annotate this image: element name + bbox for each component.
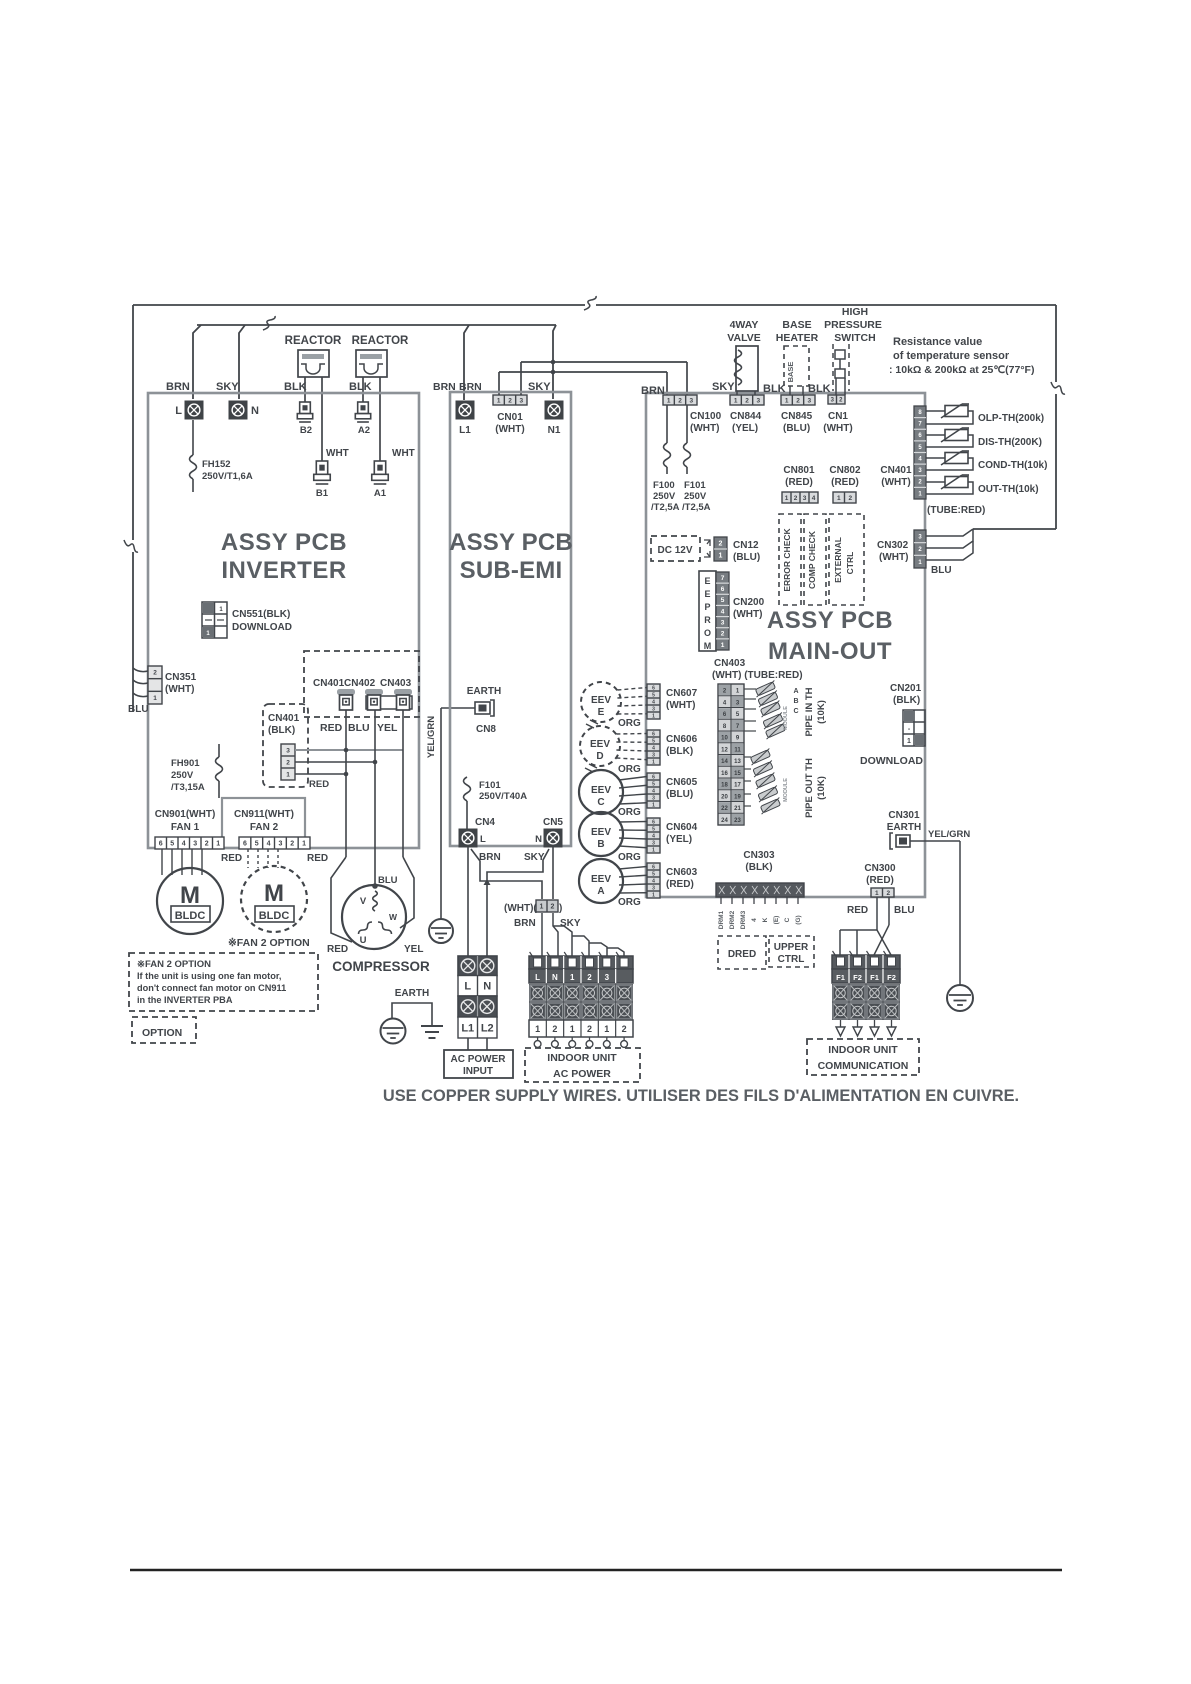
connector CN911: [239, 837, 310, 849]
svg-text:L1: L1: [459, 425, 471, 436]
svg-text:1: 1: [302, 841, 306, 848]
svg-text:BRN: BRN: [479, 852, 501, 863]
dashed box UPPER CTRL: [769, 936, 814, 967]
svg-text:CN01: CN01: [497, 412, 523, 423]
svg-text:6: 6: [159, 841, 163, 848]
connector CN401 BLK pins: [281, 744, 295, 780]
svg-text:1: 1: [875, 890, 879, 897]
svg-text:MODULE: MODULE: [783, 706, 789, 730]
svg-text:M: M: [704, 641, 712, 651]
svg-text:(RED): (RED): [666, 879, 694, 890]
terminal CN4: [459, 817, 496, 848]
svg-text:2: 2: [286, 759, 290, 766]
svg-text:CN402: CN402: [344, 678, 376, 689]
svg-text:YEL/GRN: YEL/GRN: [426, 716, 437, 758]
svg-text:1: 1: [652, 802, 655, 808]
svg-text:24: 24: [721, 818, 728, 824]
terminal block indoor AC numbers: [529, 1020, 633, 1037]
svg-text:BRN: BRN: [641, 385, 665, 397]
thermistor DIS-TH(200K): [941, 428, 1042, 448]
svg-text:(WHT): (WHT): [690, 423, 719, 434]
svg-text:2: 2: [796, 397, 800, 404]
label BLK 2: [349, 381, 372, 393]
svg-text:4: 4: [182, 841, 186, 848]
EEV A: [579, 859, 623, 903]
svg-text:(WHT): (WHT): [495, 424, 524, 435]
wire break bus: [263, 316, 275, 330]
svg-text:A2: A2: [358, 425, 370, 436]
PCB box ASSY PCB SUB-EMI: [450, 392, 571, 846]
connector CN403: [718, 684, 744, 825]
svg-text:250V/T1,6A: 250V/T1,6A: [202, 471, 253, 482]
svg-text:(RED): (RED): [866, 875, 894, 886]
caption use copper wires: [383, 1087, 1019, 1105]
svg-text:3: 3: [721, 619, 725, 626]
svg-text:ORG: ORG: [618, 852, 641, 863]
svg-text:BLDC: BLDC: [175, 910, 206, 922]
label BRN main: [641, 385, 665, 397]
pipe out thermistors: [744, 748, 789, 814]
svg-text:Resistance value: Resistance value: [893, 336, 982, 348]
svg-text:K: K: [762, 917, 769, 922]
svg-text:INPUT: INPUT: [463, 1066, 493, 1077]
svg-text:P: P: [704, 602, 710, 612]
svg-text:CN351: CN351: [165, 672, 197, 683]
svg-text:DOWNLOAD: DOWNLOAD: [860, 755, 923, 767]
title SUB-EMI: [449, 529, 573, 584]
label BRN low: [514, 918, 536, 929]
svg-text:(BLU): (BLU): [666, 789, 693, 800]
box CN911 FAN2: [222, 798, 305, 848]
svg-text:N: N: [535, 834, 542, 845]
svg-text:11: 11: [734, 747, 741, 753]
label BRN cn4: [479, 852, 501, 863]
dashed box DRED: [718, 936, 766, 969]
svg-text:/T2,5A: /T2,5A: [651, 502, 680, 513]
wire CN300 RED: [840, 897, 891, 955]
svg-text:2: 2: [721, 631, 725, 638]
svg-text:2: 2: [745, 397, 749, 404]
svg-text:BRN: BRN: [514, 918, 536, 929]
svg-text:in the INVERTER PBA: in the INVERTER PBA: [137, 995, 233, 1005]
svg-text:INDOOR UNIT: INDOOR UNIT: [547, 1052, 617, 1064]
svg-text:DIS-TH(200K): DIS-TH(200K): [978, 437, 1042, 448]
svg-text:2: 2: [552, 1024, 557, 1034]
svg-text:E: E: [704, 576, 710, 586]
svg-text:D: D: [596, 751, 603, 762]
svg-text:PIPE IN TH: PIPE IN TH: [804, 687, 815, 736]
svg-text:COMMUNICATION: COMMUNICATION: [818, 1060, 909, 1072]
labels CN303 signals: [718, 910, 802, 929]
label FAN2: [234, 809, 294, 833]
svg-text:BRN: BRN: [459, 381, 482, 393]
svg-text:EARTH: EARTH: [887, 822, 921, 833]
arrows communication: [836, 1020, 896, 1036]
svg-text:HEATER: HEATER: [776, 332, 819, 344]
svg-text:2: 2: [205, 841, 209, 848]
wire reactor2 to A2: [362, 377, 364, 402]
EEV D: [580, 726, 620, 766]
svg-text:(BLU): (BLU): [783, 423, 810, 434]
label RED compressor: [327, 944, 348, 955]
svg-text:※FAN 2 OPTION: ※FAN 2 OPTION: [137, 959, 211, 970]
svg-text:DOWNLOAD: DOWNLOAD: [232, 622, 292, 633]
svg-text:16: 16: [721, 771, 728, 777]
svg-text:BLK: BLK: [284, 381, 307, 393]
svg-text:HIGH: HIGH: [842, 306, 868, 318]
label ORG B: [618, 852, 641, 863]
svg-text:A: A: [597, 886, 604, 897]
wire L2 to box: [486, 1038, 488, 1050]
svg-text:2: 2: [719, 541, 723, 548]
label ORG E: [618, 718, 641, 729]
svg-text:EEV: EEV: [591, 695, 611, 706]
svg-text:1: 1: [153, 695, 157, 702]
svg-text:15: 15: [734, 771, 741, 777]
svg-text:1: 1: [540, 904, 544, 911]
svg-text:(WHT): (WHT): [733, 609, 762, 620]
label WHT B1: [326, 448, 349, 459]
svg-text:1: 1: [785, 495, 789, 502]
dashed box COMP CHECK: [804, 514, 826, 605]
wire outer frame top: [133, 304, 1056, 306]
terminal block indoor AC hooks: [534, 1037, 627, 1047]
svg-text:(WHT) (TUBE:RED): (WHT) (TUBE:RED): [712, 670, 803, 681]
svg-text:PRESSURE: PRESSURE: [824, 319, 882, 331]
svg-text:A: A: [793, 688, 798, 695]
svg-text:DRED: DRED: [728, 949, 756, 960]
terminal block communication pins: [832, 951, 900, 969]
svg-text:F2: F2: [853, 973, 862, 982]
svg-text:1: 1: [907, 738, 911, 745]
svg-text:/T3,15A: /T3,15A: [171, 782, 205, 793]
svg-text:1: 1: [785, 397, 789, 404]
wire break right: [1051, 382, 1065, 394]
terminal L: [175, 401, 203, 420]
wire CN5 branch to AC N: [484, 849, 550, 956]
svg-text:(RED): (RED): [785, 477, 813, 488]
svg-text:DC 12V: DC 12V: [657, 545, 692, 556]
svg-text:RED: RED: [327, 944, 348, 955]
wire thermistor 2: [926, 435, 973, 447]
svg-text:3: 3: [803, 495, 807, 502]
svg-text:CN606: CN606: [666, 734, 698, 745]
svg-text:BLU: BLU: [931, 565, 952, 576]
svg-text:ASSY PCB: ASSY PCB: [767, 607, 893, 634]
wire reactor2 to A1: [379, 377, 381, 461]
title INVERTER: [221, 529, 347, 584]
connector CN100: [663, 395, 722, 434]
svg-text:L: L: [464, 981, 471, 993]
label RED fan2: [307, 853, 328, 864]
svg-text:): ): [559, 903, 562, 914]
fuse F101 main: [682, 405, 711, 513]
svg-text:CN4: CN4: [475, 817, 495, 828]
svg-text:V: V: [360, 896, 367, 907]
svg-text:3: 3: [808, 397, 812, 404]
svg-text:E: E: [704, 589, 710, 599]
svg-text:CN301: CN301: [888, 810, 920, 821]
terminal N: [229, 401, 260, 420]
terminal block AC input L N: [458, 976, 497, 997]
wire CN5 to connector: [552, 847, 554, 899]
connector CN603: [647, 863, 698, 898]
connector CN302: [877, 530, 926, 568]
terminal L1: [456, 401, 475, 437]
svg-text:VALVE: VALVE: [727, 332, 760, 344]
label BLU cn302: [931, 565, 952, 576]
dashed box fan option plugs: [304, 651, 419, 717]
svg-text:CN801: CN801: [783, 465, 815, 476]
earth AC input: [381, 988, 444, 1044]
svg-text:DRM3: DRM3: [740, 910, 747, 929]
svg-text:SKY: SKY: [216, 381, 239, 393]
svg-text:CN401: CN401: [313, 678, 345, 689]
svg-text:USE COPPER SUPPLY WIRES. UTILI: USE COPPER SUPPLY WIRES. UTILISER DES FI…: [383, 1087, 1019, 1105]
svg-text:6: 6: [243, 841, 247, 848]
label PIPE OUT TH: [804, 758, 827, 818]
connector CN201: [903, 710, 925, 746]
svg-text:EARTH: EARTH: [395, 988, 429, 999]
wire CN300 BLU: [874, 897, 889, 955]
wire thermistor 4: [926, 482, 973, 494]
PCB box ASSY PCB MAIN-OUT: [646, 393, 925, 897]
svg-text:2: 2: [622, 1024, 627, 1034]
svg-text:ORG: ORG: [618, 807, 641, 818]
svg-text:COMPRESSOR: COMPRESSOR: [332, 959, 430, 974]
svg-text:EEV: EEV: [590, 739, 610, 750]
svg-text:19: 19: [734, 794, 741, 800]
svg-text:2: 2: [153, 670, 157, 677]
svg-text:B: B: [793, 698, 798, 705]
dashed box CN401 BLK: [263, 704, 308, 787]
wire CN401BLK pin3 row: [295, 748, 403, 753]
connector CN1: [823, 395, 852, 434]
wire CN4 branch to connector: [471, 849, 542, 899]
terminal block indoor AC pins: [529, 952, 633, 969]
svg-text:ERROR CHECK: ERROR CHECK: [782, 527, 792, 591]
svg-text:C: C: [597, 797, 604, 808]
label FAN1: [155, 809, 216, 833]
svg-text:RED: RED: [847, 905, 868, 916]
valve 4WAY label: [727, 319, 760, 344]
svg-text:250V: 250V: [171, 770, 194, 781]
svg-text:: 10kΩ & 200kΩ at 25℃(77°F): : 10kΩ & 200kΩ at 25℃(77°F): [889, 364, 1034, 376]
svg-text:BRN: BRN: [166, 381, 190, 393]
svg-text:N: N: [483, 981, 491, 993]
connector CN12: [714, 537, 760, 563]
wire CN401BLK pin1 row: [295, 772, 348, 777]
label BRN: [166, 381, 190, 393]
svg-text:1: 1: [570, 973, 575, 982]
connector B1: [314, 461, 331, 499]
box AC POWER INPUT: [444, 1050, 513, 1078]
wire YELGRN earth: [441, 708, 476, 919]
connector CN8 EARTH: [467, 686, 501, 735]
svg-text:CN100: CN100: [690, 411, 722, 422]
label RED pin1: [309, 779, 329, 790]
terminal N1: [545, 401, 564, 437]
label SKY low: [560, 918, 581, 929]
svg-text:13: 13: [734, 759, 741, 765]
label CN403: [712, 658, 803, 681]
svg-text:CN845: CN845: [781, 411, 813, 422]
svg-text:5: 5: [255, 841, 259, 848]
terminal block AC input L1 L2: [458, 1017, 497, 1038]
connector CN845: [781, 395, 815, 434]
svg-text:CN802: CN802: [829, 465, 861, 476]
svg-text:CN901(WHT): CN901(WHT): [155, 809, 216, 820]
connector plug CN401: [337, 689, 355, 710]
svg-text:BRN: BRN: [433, 381, 456, 393]
svg-text:U: U: [360, 935, 367, 946]
svg-text:SKY: SKY: [712, 381, 735, 393]
svg-text:BLU: BLU: [128, 704, 149, 715]
thermistor OLP-TH(200k): [941, 404, 1044, 424]
svg-text:CN605: CN605: [666, 777, 698, 788]
wire EEV B leads: [619, 822, 647, 848]
svg-text:CN12: CN12: [733, 540, 759, 551]
fuse FH901: [171, 744, 223, 798]
svg-text:2: 2: [587, 973, 592, 982]
label YEL compressor: [404, 944, 423, 955]
label CN303: [743, 850, 775, 873]
svg-text:BLK: BLK: [808, 383, 831, 395]
svg-text:2: 2: [290, 841, 294, 848]
svg-text:SUB-EMI: SUB-EMI: [460, 557, 563, 584]
svg-text:CN1: CN1: [828, 411, 848, 422]
wire EEV E leads: [617, 688, 647, 715]
svg-text:1: 1: [570, 1024, 575, 1034]
wire CN303 ticks: [721, 897, 798, 904]
svg-text:CN401: CN401: [268, 713, 300, 724]
svg-text:BLU: BLU: [348, 722, 370, 734]
connector CN301 EARTH: [887, 810, 921, 849]
bottom rule: [130, 1569, 1062, 1571]
svg-text:3: 3: [286, 747, 290, 754]
connector CN607: [647, 684, 698, 719]
svg-text:FAN 1: FAN 1: [171, 822, 200, 833]
svg-text:CN303: CN303: [743, 850, 775, 861]
connector CN606: [647, 730, 698, 765]
svg-text:6: 6: [721, 586, 725, 593]
connector WHT 1 2: [504, 900, 562, 914]
svg-text:3: 3: [605, 973, 610, 982]
reactor 2 label: [352, 335, 409, 347]
svg-text:2: 2: [678, 397, 682, 404]
connector CN300: [864, 863, 896, 897]
svg-text:F100: F100: [653, 480, 675, 491]
svg-text:1: 1: [535, 1024, 540, 1034]
svg-text:(BLK): (BLK): [745, 862, 772, 873]
note resistance value: [889, 336, 1034, 376]
svg-text:MODULE: MODULE: [783, 778, 789, 802]
svg-text:BLU: BLU: [894, 905, 915, 916]
svg-text:EEV: EEV: [591, 874, 611, 885]
svg-text:INDOOR UNIT: INDOOR UNIT: [828, 1044, 898, 1056]
svg-text:3: 3: [690, 397, 694, 404]
svg-text:O: O: [704, 628, 711, 638]
svg-text:BLK: BLK: [763, 383, 786, 395]
svg-text:F1: F1: [870, 973, 879, 982]
svg-text:SWITCH: SWITCH: [834, 332, 875, 344]
reactor 1: [298, 350, 329, 377]
wire fan2 motor leads: [248, 849, 278, 868]
label YELGRN vertical: [426, 716, 437, 758]
svg-text:UPPER: UPPER: [774, 942, 809, 953]
svg-text:F101: F101: [479, 780, 501, 791]
switch HIGH PRESSURE: [833, 344, 849, 395]
svg-text:(WHT): (WHT): [879, 552, 908, 563]
svg-text:C: C: [784, 917, 791, 922]
wire thermistor 3: [926, 458, 973, 470]
svg-text:BLDC: BLDC: [259, 910, 290, 922]
svg-text:21: 21: [734, 806, 741, 812]
svg-text:FH901: FH901: [171, 758, 200, 769]
svg-text:DRM1: DRM1: [718, 910, 725, 929]
svg-text:WHT: WHT: [326, 448, 349, 459]
svg-text:BASE: BASE: [782, 319, 811, 331]
svg-text:(G): (G): [795, 915, 802, 924]
svg-text:ASSY PCB: ASSY PCB: [449, 529, 573, 556]
svg-text:1: 1: [652, 713, 655, 719]
svg-text:DRM2: DRM2: [729, 910, 736, 929]
svg-text:7: 7: [721, 575, 725, 582]
terminal block AC input screws bottom: [458, 996, 497, 1017]
svg-text:1: 1: [652, 759, 655, 765]
svg-text:(BLK): (BLK): [666, 746, 693, 757]
svg-text:(E): (E): [773, 916, 780, 925]
wire CN301 to earth: [910, 841, 960, 985]
connector A1: [372, 461, 389, 499]
arrows CN12: [704, 540, 710, 557]
svg-text:N: N: [251, 405, 259, 417]
wire CN401BLK pin2 row: [295, 760, 377, 765]
svg-text:2: 2: [794, 495, 798, 502]
wire SKY feed to CN100: [521, 362, 687, 395]
svg-text:14: 14: [721, 759, 728, 765]
svg-text:4: 4: [812, 495, 816, 502]
connector CN844: [730, 395, 764, 434]
connector A2: [355, 402, 370, 436]
svg-text:EEV: EEV: [591, 785, 611, 796]
wire break top: [584, 296, 596, 310]
svg-text:4: 4: [267, 841, 271, 848]
svg-text:W: W: [389, 912, 398, 922]
svg-text:PIPE OUT TH: PIPE OUT TH: [804, 758, 815, 818]
svg-text:M: M: [180, 882, 200, 909]
connector CN801: [782, 465, 818, 503]
svg-text:CN8: CN8: [476, 724, 496, 735]
connector plug CN402: [365, 689, 383, 710]
svg-text:(WHT)(: (WHT)(: [504, 903, 537, 914]
label BLU compressor: [378, 875, 398, 886]
svg-text:1: 1: [837, 495, 841, 502]
label BLK: [284, 381, 307, 393]
svg-text:BLK: BLK: [349, 381, 372, 393]
label CN200: [733, 597, 765, 620]
label YELGRN right: [928, 829, 970, 840]
svg-text:BASE: BASE: [786, 362, 795, 383]
label BLK heater: [763, 383, 786, 395]
svg-text:CN201: CN201: [890, 683, 922, 694]
svg-text:CTRL: CTRL: [778, 954, 805, 965]
svg-text:COND-TH(10k): COND-TH(10k): [978, 460, 1047, 471]
svg-text:23: 23: [734, 818, 741, 824]
wire CN4 to AC L: [467, 847, 469, 956]
fuse F101 sub: [464, 777, 528, 829]
svg-text:(WHT): (WHT): [165, 684, 194, 695]
